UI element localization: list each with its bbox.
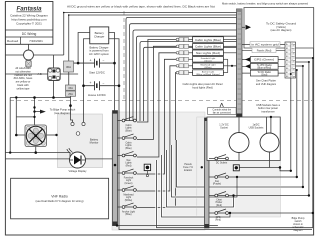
battery monitor terminals	[71, 122, 74, 125]
wire: switch left to ground bus	[5, 73, 47, 75]
wire bundle: right risers to terminal strip	[280, 58, 313, 228]
wire: charger right output 2	[109, 39, 119, 86]
svg-text:are yellow or: are yellow or	[16, 80, 31, 84]
svg-text:Copyrights © 2021: Copyrights © 2021	[16, 21, 42, 25]
fuse row 4: foredeck light	[176, 57, 228, 63]
svg-text:7/16/2021: 7/16/2021	[29, 39, 43, 43]
wire: outlet 2 feeds	[267, 117, 271, 134]
wire: bilge pump branch arrow	[35, 111, 41, 113]
switch: chart plotter	[209, 192, 309, 197]
svg-text:diagram: diagram	[293, 229, 302, 232]
svg-text:Lights: Lights	[125, 162, 132, 165]
switch: fan	[209, 173, 297, 178]
svg-text:Masthead Light: Masthead Light	[201, 64, 216, 67]
svg-text:(White): (White)	[125, 199, 133, 202]
12V DC outlet socket	[229, 133, 249, 153]
fuse row 1: cabin lights	[176, 37, 236, 43]
wire: bus to AC system grid row	[242, 44, 285, 46]
wire: main feed line 2	[69, 14, 237, 16]
label: masthead light	[123, 194, 134, 202]
svg-text:Foredeck Light: Foredeck Light	[201, 57, 216, 60]
wire: switch bottom drop	[53, 81, 55, 98]
svg-text:GPS: GPS	[216, 217, 221, 219]
compartment boundary (dashed horizontal)	[10, 100, 312, 102]
svg-text:Voltage Display: Voltage Display	[69, 169, 88, 173]
svg-text:Chart: Chart	[216, 199, 222, 202]
battery monitor mid terminal	[76, 132, 80, 136]
svg-text:Panels (Red): Panels (Red)	[257, 49, 272, 52]
svg-text:B5: B5	[286, 64, 288, 66]
switch: GPS	[209, 209, 313, 214]
wire: battery common run	[10, 97, 70, 99]
svg-text:Gnd: Gnd	[291, 48, 295, 50]
svg-text:(see diagram): (see diagram)	[54, 111, 71, 115]
cabin bus bar (vertical, lower left)	[113, 111, 118, 226]
battery B2 house	[84, 81, 120, 90]
light fixture icon (nav)	[144, 164, 150, 177]
wire bundle: lower-left panel to accessory rows	[157, 140, 313, 228]
svg-text:(Red): (Red)	[126, 165, 132, 167]
svg-text:B8: B8	[286, 76, 288, 78]
wire: panels red row	[242, 49, 285, 51]
svg-text:(see AC diagram): (see AC diagram)	[271, 28, 292, 32]
svg-text:(White): (White)	[204, 66, 211, 69]
wire: lower ground run 2	[5, 158, 112, 160]
svg-text:Plotter: Plotter	[216, 201, 223, 204]
svg-text:(Blue w/Red Stripe): (Blue w/Red Stripe)	[196, 73, 220, 76]
svg-text:(Green): (Green)	[125, 182, 133, 185]
svg-text:Revised: Revised	[7, 39, 18, 43]
svg-text:B7: B7	[286, 72, 288, 74]
wire: lower ground run 1	[5, 153, 70, 158]
wire: bottom run from left bus bar	[113, 225, 218, 227]
wire bundle: lower-left panel runs (white casing)	[157, 140, 313, 228]
svg-text:Fantasia: Fantasia	[16, 6, 42, 13]
svg-text:Light: Light	[126, 179, 131, 182]
svg-text:DC Wiring: DC Wiring	[22, 32, 37, 36]
svg-text:Lights: Lights	[125, 127, 132, 130]
wire: house feed to monitor terminal	[83, 86, 85, 123]
switch: masthead light	[118, 186, 138, 191]
svg-text:fan as connected: fan as connected	[213, 111, 232, 114]
svg-text:Cabin: Cabin	[125, 143, 132, 145]
svg-text:in AC system grid: in AC system grid	[252, 43, 280, 46]
svg-text:Lights: Lights	[125, 144, 132, 147]
title block	[5, 2, 53, 45]
switch: cabin lights 1	[118, 117, 138, 122]
svg-text:Charger: Charger	[94, 35, 104, 39]
svg-text:yellow tape: yellow tape	[17, 86, 31, 90]
wire: fuse stack down to monitor	[71, 96, 73, 122]
wire: outlet bottoms	[239, 152, 270, 168]
DC panel bus bar (vertical, top)	[237, 9, 243, 119]
switch: foredeck light	[118, 169, 138, 174]
battery switch SW1 (1-2-both)	[48, 55, 61, 81]
fuse row 3: nav lights	[176, 50, 236, 56]
svg-text:+: +	[90, 81, 92, 85]
svg-text:(Red): (Red)	[216, 205, 222, 207]
label box: to VHF radio	[242, 63, 285, 69]
terminal strip TB1	[285, 42, 296, 78]
svg-text:Gnd: Gnd	[291, 64, 295, 66]
svg-text:B1: B1	[286, 48, 288, 50]
label box: DC radio gnd	[242, 70, 285, 76]
VHF radio box	[11, 178, 109, 219]
DC safety ground box	[242, 8, 314, 49]
svg-text:Light: Light	[126, 196, 131, 199]
svg-text:location: location	[184, 169, 193, 172]
svg-text:(Red): (Red)	[215, 220, 221, 222]
label: cabin lights 1	[125, 125, 132, 132]
svg-text:black with: black with	[17, 83, 29, 87]
svg-text:B4: B4	[286, 60, 288, 62]
note: panels fuse location	[183, 163, 193, 172]
svg-text:Masthead: Masthead	[123, 194, 134, 197]
note: bilge pump switch shown	[292, 217, 305, 232]
switch: cabin lights 2	[118, 134, 138, 139]
fuse row 6: anchor light	[176, 70, 228, 76]
main battery switch panel symbol	[5, 13, 63, 68]
switch: nav lights	[118, 152, 138, 157]
svg-text:(Blue w/Red): (Blue w/Red)	[257, 67, 271, 70]
fuse F1 30A	[64, 15, 74, 85]
svg-text:(see Dual Radio KYC diagram fo: (see Dual Radio KYC diagram for wiring)	[36, 199, 84, 203]
svg-text:GPS (Green): GPS (Green)	[254, 58, 274, 62]
label: cabin lights 2	[125, 143, 132, 150]
compartment boundary (dashed vertical)	[123, 11, 125, 101]
fuse F3 25A	[66, 91, 76, 96]
wire: charger left output 2	[84, 39, 90, 86]
svg-text:−: −	[103, 59, 105, 63]
svg-text:Socket: Socket	[220, 126, 228, 129]
svg-text:(Blue): (Blue)	[125, 148, 131, 150]
wire: main feed line 1	[64, 12, 237, 14]
wire: fan right stub	[47, 134, 57, 136]
svg-text:25A: 25A	[68, 92, 73, 96]
svg-text:Monitor: Monitor	[90, 141, 99, 145]
svg-text:Start 12VDC: Start 12VDC	[89, 71, 105, 75]
voltage display D1	[66, 148, 85, 168]
label box: GPS (Green)	[242, 57, 285, 63]
svg-text:All DC ground wires are yellow: All DC ground wires are yellow or black …	[67, 5, 215, 9]
USB outlet socket	[260, 133, 279, 152]
svg-text:House 12VDC: House 12VDC	[88, 93, 106, 97]
svg-text:Cabin Lights (Blue): Cabin Lights (Blue)	[195, 38, 221, 42]
label: foredeck light	[124, 177, 134, 185]
svg-text:Cabin: Cabin	[125, 125, 132, 127]
battery charger U1	[90, 27, 109, 44]
label: nav lights	[125, 160, 132, 167]
wire: charger left output 1	[78, 33, 90, 64]
wire: outlet 1 feed	[238, 117, 240, 133]
svg-text:Cabin Lights (Blue): Cabin Lights (Blue)	[195, 45, 221, 49]
battery B1 start	[73, 59, 115, 68]
svg-text:B3: B3	[286, 56, 288, 58]
wire bundle: battery feeds rising to DC panel bus	[126, 17, 237, 121]
label: anchor light	[122, 211, 135, 217]
controls box note	[208, 103, 237, 114]
wire: fan bottom stub	[35, 147, 37, 153]
svg-text:Main switch, battery breaker,: Main switch, battery breaker, and bilge …	[222, 2, 308, 6]
panel: battery monitor (gray)	[58, 114, 103, 168]
svg-text:and VHF diagram: and VHF diagram	[256, 82, 276, 86]
svg-text:+: +	[90, 59, 92, 63]
svg-text:(Gnd): (Gnd)	[261, 74, 267, 77]
fuse row 5: masthead light	[176, 63, 236, 69]
note: all wire fuses	[14, 66, 33, 90]
svg-text:B6: B6	[286, 68, 288, 70]
svg-text:30A: 30A	[66, 65, 71, 69]
wire: fan left loop	[16, 98, 34, 136]
svg-text:Anchor Light: Anchor Light	[122, 211, 135, 214]
wire bundle: switch rows up to fuse rows	[137, 40, 177, 208]
wire: bottom run 2	[119, 86, 312, 230]
switch: DC outlets	[209, 155, 228, 160]
svg-text:DC Outlets: DC Outlets	[216, 162, 228, 165]
12V outlets box	[207, 117, 280, 161]
svg-text:USB Sockets: USB Sockets	[249, 126, 264, 129]
svg-text:(Blue): (Blue)	[125, 214, 131, 216]
panel: cabin switch panel left (gray)	[112, 112, 205, 230]
svg-text:transformer: transformer	[261, 109, 274, 113]
fan / blower M1	[25, 125, 47, 147]
fuse row 2: cabin lights	[176, 44, 236, 50]
accessory bus bar (vertical, lower middle)	[205, 118, 210, 228]
svg-text:not otherwise: not otherwise	[15, 69, 31, 73]
svg-text:Foredeck: Foredeck	[124, 177, 134, 180]
wire: switch right to battery feed	[60, 73, 78, 75]
wire: outlet ground run	[236, 167, 280, 169]
svg-text:All wire/fuses: All wire/fuses	[15, 66, 31, 70]
light fixture icon (fan feed)	[233, 165, 239, 171]
svg-text:#16 AWG, fuses: #16 AWG, fuses	[14, 76, 33, 80]
wire: bilge drop	[34, 98, 36, 126]
panel: lower right panel (gray)	[197, 117, 281, 217]
svg-text:B2: B2	[286, 52, 288, 54]
fuse F2 15A	[66, 85, 76, 90]
svg-text:AC 120V system: AC 120V system	[89, 52, 110, 56]
label: in AC system grid	[250, 42, 280, 47]
svg-text:(Blue): (Blue)	[125, 130, 131, 132]
svg-text:−: −	[103, 81, 105, 85]
wire: left ground return	[9, 98, 11, 153]
svg-text:Nav Lights (Red): Nav Lights (Red)	[196, 51, 220, 55]
svg-text:15A: 15A	[68, 86, 73, 90]
wire: rows 4-6 joined bracket	[228, 59, 237, 72]
svg-text:Anchor Light: Anchor Light	[202, 70, 215, 73]
svg-text:hood lights (Red): hood lights (Red)	[192, 85, 213, 89]
svg-text:(Purple): (Purple)	[213, 183, 221, 186]
svg-text:Gnd: Gnd	[291, 56, 295, 58]
label: panels (red)	[252, 48, 276, 53]
switch: anchor light	[118, 203, 138, 208]
svg-text:VHF Radio: VHF Radio	[51, 195, 68, 199]
svg-text:marked are red: marked are red	[14, 73, 32, 77]
wire: charger right output 1	[109, 33, 115, 111]
svg-text:(Green): (Green)	[204, 60, 212, 63]
